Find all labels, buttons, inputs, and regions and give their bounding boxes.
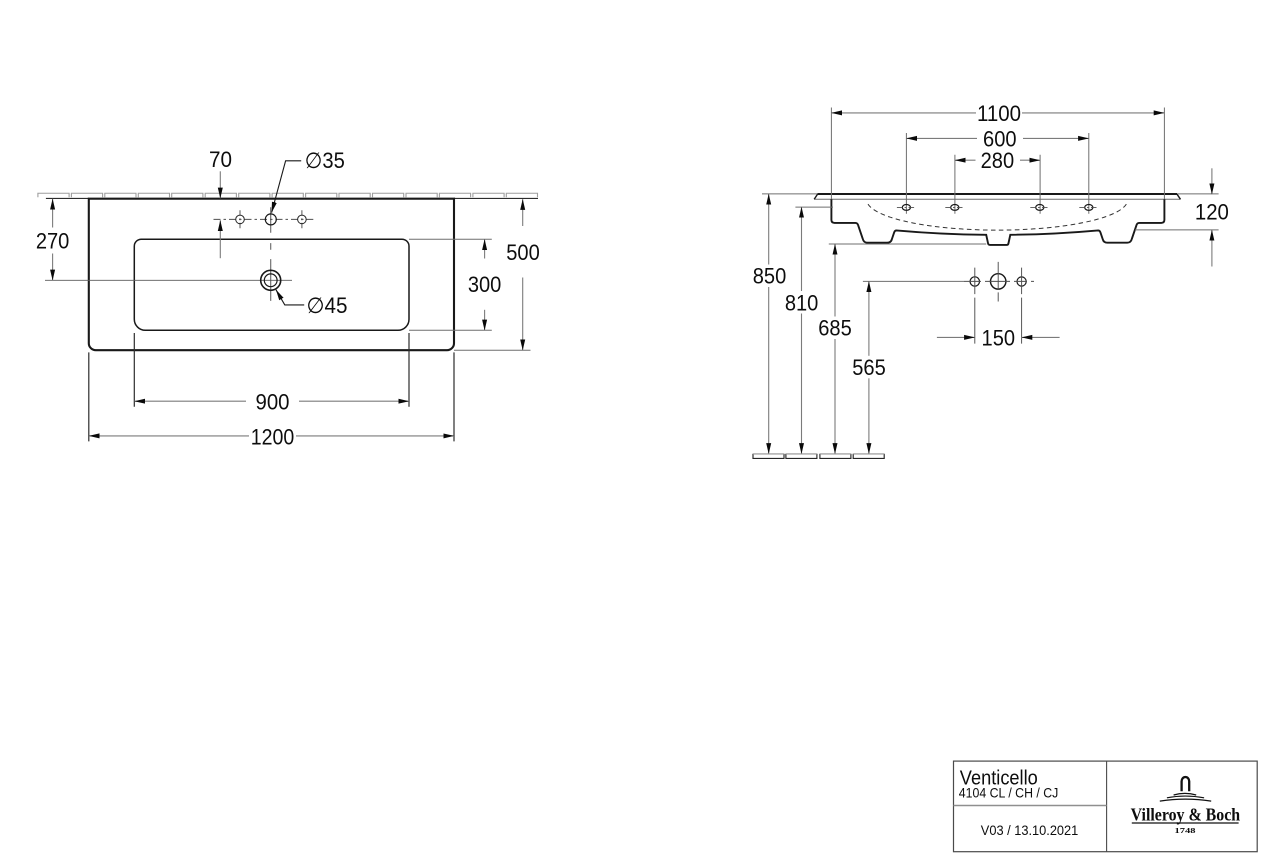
svg-text:270: 270 — [36, 229, 70, 254]
svg-text:900: 900 — [256, 390, 290, 415]
svg-text:4104 CL / CH / CJ: 4104 CL / CH / CJ — [959, 784, 1059, 800]
svg-text:1200: 1200 — [251, 424, 295, 449]
svg-text:850: 850 — [753, 264, 787, 289]
svg-text:685: 685 — [818, 316, 852, 341]
svg-text:120: 120 — [1195, 200, 1229, 225]
svg-text:∅45: ∅45 — [307, 293, 348, 318]
svg-text:V03 / 13.10.2021: V03 / 13.10.2021 — [981, 822, 1079, 838]
svg-text:1100: 1100 — [977, 101, 1021, 126]
svg-text:810: 810 — [785, 290, 819, 315]
svg-text:150: 150 — [982, 325, 1016, 350]
svg-text:565: 565 — [852, 355, 886, 380]
svg-text:1748: 1748 — [1175, 826, 1196, 835]
svg-text:500: 500 — [506, 240, 540, 265]
svg-text:280: 280 — [981, 148, 1015, 173]
svg-text:300: 300 — [468, 272, 502, 297]
svg-text:∅35: ∅35 — [305, 148, 345, 173]
svg-text:70: 70 — [209, 147, 232, 172]
svg-text:Villeroy & Boch: Villeroy & Boch — [1131, 805, 1241, 825]
